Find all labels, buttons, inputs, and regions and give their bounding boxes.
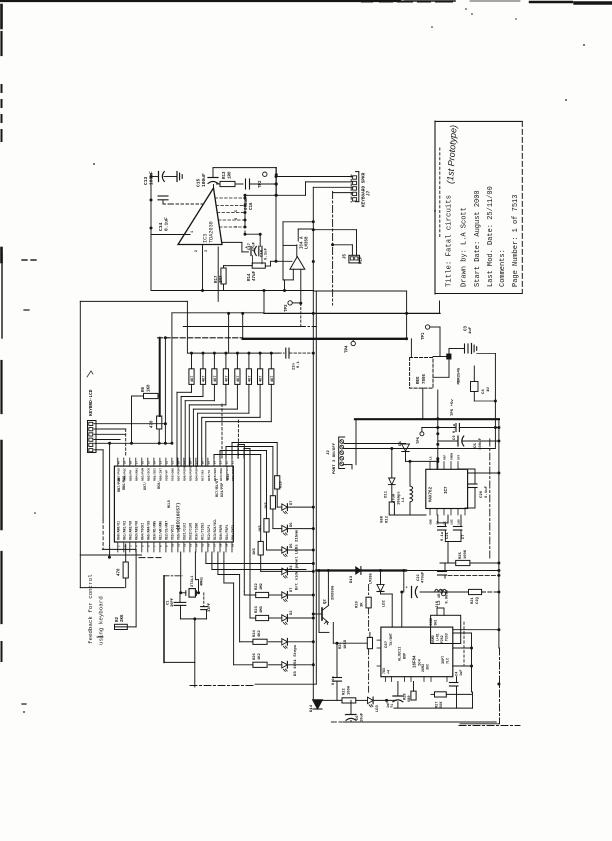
svg-text:RB1/SDI: RB1/SDI <box>153 468 157 481</box>
svg-text:R2: R2 <box>116 616 120 622</box>
svg-text:1U: 1U <box>487 387 491 392</box>
capacitor C7b <box>460 515 462 526</box>
LED resistor verticals <box>275 476 280 489</box>
svg-text:5: 5 <box>235 210 239 212</box>
resistor R17 <box>223 266 225 268</box>
wire apex top <box>213 167 276 169</box>
svg-text:TP5: TP5 <box>417 436 421 444</box>
svg-text:11: 11 <box>178 543 181 547</box>
svg-text:LM385: LM385 <box>370 573 374 584</box>
chain mid right <box>489 439 491 560</box>
svg-text:D11: D11 <box>385 490 389 498</box>
svg-text:30PF: 30PF <box>171 597 175 607</box>
svg-text:RC7/RX: RC7/RX <box>201 470 205 481</box>
svg-text:TP2: TP2 <box>259 180 263 188</box>
test point TP2 <box>263 172 267 176</box>
svg-text:R21: R21 <box>339 641 343 649</box>
svg-text:RB6/PGC: RB6/PGC <box>122 476 127 490</box>
svg-text:20: 20 <box>232 543 235 547</box>
boundary bottom <box>255 683 316 685</box>
svg-text:0.1uF: 0.1uF <box>245 197 249 210</box>
svg-text:4K7: 4K7 <box>260 376 264 382</box>
svg-text:TP3: TP3 <box>285 304 289 312</box>
svg-text:39: 39 <box>123 461 126 465</box>
svg-text:RB4/AN1: RB4/AN1 <box>135 468 139 481</box>
feedback lower loop <box>102 548 136 550</box>
svg-text:2: 2 <box>195 250 199 252</box>
rail y337 dashes <box>158 337 243 339</box>
svg-text:C1Q: C1Q <box>476 596 480 604</box>
svg-text:KEYBOARD SPKR: KEYBOARD SPKR <box>362 172 367 207</box>
thick riser <box>159 338 161 416</box>
svg-text:D6: D6 <box>290 522 294 527</box>
wire net out <box>245 194 306 196</box>
svg-text:R12: R12 <box>386 515 390 523</box>
regulator box <box>410 358 433 389</box>
svg-text:25: 25 <box>208 461 211 465</box>
svg-text:PORT 3 ON/OFF: PORT 3 ON/OFF <box>332 442 337 474</box>
svg-text:V+: V+ <box>437 456 440 460</box>
title block <box>434 121 436 294</box>
bus wire above IC <box>94 442 172 444</box>
wire right riser <box>275 168 277 196</box>
wire op-amp pin3 down <box>217 247 219 301</box>
svg-text:C17: C17 <box>248 242 252 250</box>
svg-text:LBO: LBO <box>458 519 461 524</box>
diode D2 MBR2545 <box>433 356 447 358</box>
LED D9 <box>356 699 368 701</box>
svg-text:IC7: IC7 <box>445 486 449 494</box>
svg-text:3K: 3K <box>361 602 365 607</box>
svg-text:SH2: SH2 <box>434 620 438 626</box>
svg-text:OSMD: OSMD <box>431 635 435 643</box>
svg-text:RA2/AN2/VR: RA2/AN2/VR <box>129 521 133 540</box>
svg-text:16F84: 16F84 <box>414 655 418 668</box>
resistor R22b <box>322 699 342 701</box>
capacitor C16 <box>245 179 247 189</box>
LED D12 <box>380 571 382 585</box>
capacitor C9 <box>455 424 457 432</box>
circle conn D10 <box>442 592 446 596</box>
svg-text:10uF: 10uF <box>361 712 365 722</box>
reg output down <box>422 388 424 419</box>
svg-text:R21: R21 <box>471 596 475 604</box>
svg-text:IC4 A: IC4 A <box>300 236 304 249</box>
rail y313 <box>172 312 264 314</box>
svg-text:D5: D5 <box>290 543 294 548</box>
svg-text:1uF: 1uF <box>460 670 464 676</box>
svg-text:23: 23 <box>220 461 223 465</box>
connector J5 REF <box>349 255 360 263</box>
diode D1 <box>402 444 410 451</box>
op-amp IC4 LM358 triangle <box>290 257 305 270</box>
svg-text:Comments:: Comments: <box>499 249 507 287</box>
capacitor C11 <box>336 643 338 677</box>
svg-text:1K5: 1K5 <box>265 501 269 509</box>
svg-text:?1: ?1 <box>391 704 395 708</box>
svg-text:4K7: 4K7 <box>271 376 275 382</box>
svg-text:16: 16 <box>208 543 211 547</box>
capacitor C22 <box>411 587 413 598</box>
svg-text:OSC1/CLKI: OSC1/CLKI <box>183 523 187 540</box>
svg-text:40: 40 <box>117 461 120 465</box>
svg-text:0.1u: 0.1u <box>332 676 336 685</box>
svg-text:RB5/PP: RB5/PP <box>129 470 133 481</box>
wire op-amp output down <box>202 245 204 291</box>
svg-text:3: 3 <box>235 226 239 228</box>
svg-text:R25: R25 <box>459 551 463 559</box>
svg-text:1K5: 1K5 <box>259 524 263 532</box>
test point TP5 <box>420 432 424 436</box>
diode D13 on thick wire <box>356 567 361 574</box>
svg-text:DGND: DGND <box>429 618 433 626</box>
wire r25 <box>445 541 461 543</box>
svg-text:18: 18 <box>220 543 223 547</box>
svg-text:47uF: 47uF <box>253 241 257 251</box>
svg-text:470uF: 470uF <box>422 571 426 583</box>
crystal ground wire <box>181 618 207 620</box>
capacitor C4 <box>471 382 479 392</box>
svg-text:R50/: R50/ <box>157 481 162 489</box>
left boundary wire <box>79 301 81 587</box>
diode D11 and resistor R12 <box>391 449 393 479</box>
svg-text:7805: 7805 <box>423 373 427 384</box>
capacitor C2 <box>203 593 205 607</box>
row of 8 pull-up resistors <box>190 352 193 355</box>
svg-text:21: 21 <box>232 461 235 465</box>
svg-text:Drawn by: L.A Scott: Drawn by: L.A Scott <box>461 207 469 287</box>
svg-text:C3: C3 <box>465 325 469 331</box>
svg-text:RC3/SCK/SCL: RC3/SCK/SCL <box>213 519 217 540</box>
op-amp pin stub dashes right edge <box>215 197 245 199</box>
svg-text:D7: D7 <box>290 500 294 505</box>
svg-text:1K5: 1K5 <box>253 547 257 555</box>
reg input stub <box>410 339 412 358</box>
svg-text:47uF: 47uF <box>253 270 257 281</box>
svg-text:RC6/TX: RC6/TX <box>207 470 211 481</box>
svg-text:R28: R28 <box>404 694 408 700</box>
svg-text:J5: J5 <box>344 253 348 259</box>
svg-text:B9P: B9P <box>403 653 407 659</box>
port3 connector <box>339 437 345 469</box>
svg-text:RD6/PSP6: RD6/PSP6 <box>183 466 187 481</box>
svg-text:LM358: LM358 <box>305 236 309 249</box>
capacitor C8 <box>444 563 446 571</box>
svg-text:MBR2545: MBR2545 <box>458 367 462 384</box>
capacitor C6 <box>350 700 352 714</box>
svg-text:RD2/PSP2: RD2/PSP2 <box>231 466 235 481</box>
svg-text:26: 26 <box>202 461 205 465</box>
svg-text:C5: C5 <box>474 443 478 448</box>
svg-text:14: 14 <box>196 543 199 547</box>
riser J5 net <box>312 187 314 290</box>
test point TP3 <box>288 301 292 305</box>
op-amp IC3 input wire <box>151 234 190 236</box>
wire to J5 second pin <box>333 244 353 246</box>
svg-text:TX/SMT: TX/SMT <box>389 632 394 646</box>
svg-text:D14: D14 <box>310 704 314 712</box>
rail y301 <box>80 300 187 302</box>
dash remnant <box>139 557 145 559</box>
svg-text:1R0: 1R0 <box>229 171 233 179</box>
svg-text:SHDN: SHDN <box>451 453 454 460</box>
svg-text:C15: C15 <box>196 178 202 187</box>
MAX762 right wires <box>468 472 499 474</box>
svg-text:GND: GND <box>430 519 433 524</box>
svg-text:RB3/PGM: RB3/PGM <box>141 468 145 481</box>
svg-text:Page Number: 1 of 7513: Page Number: 1 of 7513 <box>512 195 520 287</box>
svg-text:4K7: 4K7 <box>237 376 241 382</box>
transistor Q2 <box>321 608 323 620</box>
svg-text:78X: 78X <box>383 667 387 674</box>
svg-text:2K6: 2K6 <box>121 614 125 622</box>
svg-text:22n: 22n <box>293 362 297 370</box>
bottom rail of amp section <box>151 290 313 292</box>
svg-text:34: 34 <box>154 461 157 465</box>
chain y326 <box>183 326 300 328</box>
svg-text:C9 0.1u: C9 0.1u <box>453 423 457 440</box>
svg-text:C13: C13 <box>143 176 149 185</box>
svg-text:28: 28 <box>190 461 193 465</box>
svg-text:C7: C7 <box>462 534 466 539</box>
svg-text:R22: R22 <box>343 687 347 695</box>
chain mid <box>368 585 370 598</box>
svg-text:100uF: 100uF <box>201 173 207 187</box>
svg-text:D1: D1 <box>399 440 403 445</box>
wire right link <box>453 629 499 631</box>
capacitor C17 <box>250 247 252 256</box>
svg-text:R19: R19 <box>280 480 284 488</box>
svg-text:D7: D7 <box>290 587 294 592</box>
svg-text:38: 38 <box>129 461 132 465</box>
svg-text:R27: R27 <box>436 702 440 708</box>
svg-text:KEYBRD-LCD: KEYBRD-LCD <box>89 389 94 416</box>
thick wire to power <box>316 569 406 571</box>
test point TP4 <box>352 339 354 342</box>
svg-text:10: 10 <box>172 543 175 547</box>
svg-text:REG: REG <box>417 376 421 384</box>
svg-text:2R7: 2R7 <box>220 275 224 283</box>
resistor R25 <box>440 562 456 564</box>
svg-text:7LC: 7LC <box>447 658 451 664</box>
connector J7 KEYBOARD SPKR <box>358 172 360 202</box>
IC5 box <box>381 627 453 677</box>
svg-text:0.1uF: 0.1uF <box>164 217 170 231</box>
bottom wire <box>394 707 473 709</box>
svg-text:Q2: Q2 <box>324 599 328 604</box>
svg-text:LD2: LD2 <box>383 599 387 607</box>
IC5 pins left <box>377 633 379 640</box>
scan edge noise left margin <box>0 5 3 28</box>
C24 cap <box>456 677 458 682</box>
svg-text:1M2: 1M2 <box>260 582 264 590</box>
svg-text:feedback for control: feedback for control <box>87 574 94 644</box>
svg-text:1uF: 1uF <box>469 326 473 334</box>
svg-text:R23: R23 <box>255 605 259 613</box>
LM358 input wire <box>276 260 292 262</box>
svg-text:RB2/SCK: RB2/SCK <box>147 468 151 481</box>
capacitor C1 <box>179 593 181 603</box>
svg-text:J7: J7 <box>367 190 372 196</box>
op-amp IC3 TDA2030 triangle <box>178 188 222 245</box>
riser to IC5 <box>401 592 403 627</box>
LM358 feedback loop <box>296 245 298 257</box>
svg-text:22: 22 <box>226 461 229 465</box>
dashed aux verticals <box>221 404 223 458</box>
svg-text:OSC2/CLKO: OSC2/CLKO <box>189 523 193 540</box>
riser x165 <box>164 338 166 444</box>
svg-text:3OPT: 3OPT <box>442 656 446 664</box>
svg-text:100uF: 100uF <box>149 171 155 185</box>
svg-text:32: 32 <box>166 461 169 465</box>
svg-text:4K2: 4K2 <box>258 629 262 637</box>
svg-text:4: 4 <box>235 218 239 220</box>
svg-text:ALJEC11: ALJEC11 <box>399 647 403 661</box>
svg-text:3: 3 <box>205 250 209 252</box>
svg-text:29: 29 <box>184 461 187 465</box>
svg-text:27: 27 <box>196 461 199 465</box>
svg-text:L+R1: L+R1 <box>436 633 440 641</box>
LM358 output <box>300 269 302 303</box>
svg-text:12: 12 <box>184 543 187 547</box>
svg-text:REF: REF <box>360 256 364 264</box>
svg-text:100K: 100K <box>464 549 468 559</box>
right bus main <box>498 419 500 648</box>
svg-text:1: 1 <box>191 231 195 233</box>
svg-text:C22: C22 <box>417 573 421 581</box>
svg-text:C16: C16 <box>250 202 254 210</box>
resistor R13 <box>217 183 221 185</box>
svg-text:17: 17 <box>214 543 217 547</box>
resistor 470 feedback <box>125 544 127 562</box>
svg-text:RE0/RD/AN5: RE0/RD/AN5 <box>153 521 157 540</box>
svg-text:13: 13 <box>190 543 193 547</box>
svg-text:TP1: TP1 <box>422 332 426 340</box>
svg-text:D2: D2 <box>290 610 294 615</box>
svg-text:using keyboard: using keyboard <box>98 596 105 645</box>
svg-text:30: 30 <box>178 461 181 465</box>
svg-text:15: 15 <box>202 543 205 547</box>
svg-text:RE1/WR/AN6: RE1/WR/AN6 <box>159 521 163 540</box>
LM358 output wire <box>312 228 314 230</box>
svg-text:68K: 68K <box>381 515 385 523</box>
svg-text:RD5/PSP5: RD5/PSP5 <box>189 466 193 481</box>
svg-text:1M3: 1M3 <box>260 605 264 613</box>
svg-text:J2: J2 <box>327 450 331 455</box>
svg-text:RC7/RX/DT: RC7/RX/DT <box>215 479 220 497</box>
svg-text:470: 470 <box>118 568 122 576</box>
svg-text:Title: Fatal circuits: Title: Fatal circuits <box>446 195 454 287</box>
capacitor C21 <box>444 523 446 526</box>
IC bottom pins <box>117 542 119 552</box>
wire TDA pin2 jog <box>222 241 242 243</box>
crystal XTAL1 <box>181 592 186 594</box>
svg-text:100A: 100A <box>348 685 352 695</box>
svg-text:0.1: 0.1 <box>297 360 301 368</box>
inductor L2 <box>435 589 439 592</box>
svg-text:RA0/AN0/U1: RA0/AN0/U1 <box>117 521 121 540</box>
capacitor C15 at apex <box>213 185 215 189</box>
svg-text:Last Mod. Date: 25/11/00: Last Mod. Date: 25/11/00 <box>487 186 495 287</box>
svg-text:Brt side panel LEDs 215mm: Brt side panel LEDs 215mm <box>295 529 300 590</box>
resistor row rail <box>188 352 279 354</box>
svg-text:680: 680 <box>408 696 412 702</box>
power entry row <box>420 591 469 593</box>
svg-text:24: 24 <box>214 461 217 465</box>
feedback box <box>80 554 141 556</box>
section chain line <box>332 192 334 306</box>
Q2 aux wire <box>318 571 320 633</box>
svg-text:XTAL1: XTAL1 <box>191 575 195 587</box>
svg-text:RC1/T1OSI: RC1/T1OSI <box>201 523 205 540</box>
svg-text:RA1/AN1/U2: RA1/AN1/U2 <box>123 521 127 540</box>
port3 wires <box>344 443 406 445</box>
riser left of IC <box>109 443 111 557</box>
wires from bundle to lower rows <box>239 575 241 642</box>
bus wires below IC <box>205 552 207 564</box>
IC top pins <box>117 458 119 466</box>
svg-text:TDA2030: TDA2030 <box>209 221 215 243</box>
svg-text:MAX762: MAX762 <box>430 486 434 502</box>
svg-text:LBI: LBI <box>451 519 454 524</box>
IC5 pins bottom <box>385 677 387 682</box>
svg-text:R22: R22 <box>255 582 259 590</box>
svg-text:D97/: D97/ <box>143 482 148 490</box>
svg-text:R33: R33 <box>227 474 231 480</box>
svg-text:R13: R13 <box>223 171 227 179</box>
svg-text:J10: J10 <box>436 600 440 608</box>
Q2 emitter wire <box>332 623 334 644</box>
svg-text:31: 31 <box>172 461 175 465</box>
svg-text:RD7/PSP7: RD7/PSP7 <box>177 466 181 481</box>
svg-text:VSS/GND1: VSS/GND1 <box>177 525 181 540</box>
svg-text:VDD/VP: VDD/VP <box>165 470 169 481</box>
svg-text:MCLR: MCLR <box>167 500 171 508</box>
svg-text:10amps: 10amps <box>398 491 402 505</box>
svg-text:0.1uF: 0.1uF <box>265 247 269 260</box>
svg-text:VDD/VCC1: VDD/VCC1 <box>171 525 175 540</box>
R28 680 <box>413 682 415 692</box>
svg-text:LD3: LD3 <box>376 704 380 712</box>
R27 56K <box>435 692 447 697</box>
svg-text:D24/PSP: D24/PSP <box>220 483 225 497</box>
main vertical bus <box>312 291 314 700</box>
svg-text:RA3/AN3/VR: RA3/AN3/VR <box>135 521 139 540</box>
svg-text:19: 19 <box>226 543 229 547</box>
svg-text:C1: C1 <box>167 600 171 605</box>
wire TP1 branch <box>439 301 441 313</box>
svg-text:D13: D13 <box>350 575 354 583</box>
chain bottom right <box>459 725 520 727</box>
bus bottom diode D14 <box>313 700 323 709</box>
svg-text:C4: C4 <box>482 389 486 394</box>
svg-text:33PF: 33PF <box>208 602 212 612</box>
inductor L1 <box>406 460 438 462</box>
resistor R21 <box>469 589 482 594</box>
bypass cap 22n <box>279 352 284 354</box>
svg-text:R26: R26 <box>253 652 257 660</box>
LED column top leds <box>277 506 282 508</box>
svg-text:4K7: 4K7 <box>203 376 207 382</box>
top wire to reg area <box>313 290 406 292</box>
svg-text:TP4: TP4 <box>346 345 350 353</box>
svg-text:RE2/CS/AN7: RE2/CS/AN7 <box>165 521 169 540</box>
svg-text:VSS/GND: VSS/GND <box>171 468 175 481</box>
capacitor C19 <box>457 436 459 446</box>
crystal circuit <box>180 552 182 593</box>
svg-text:4K7: 4K7 <box>214 376 218 382</box>
svg-text:RC0/T1OSO: RC0/T1OSO <box>195 523 199 540</box>
